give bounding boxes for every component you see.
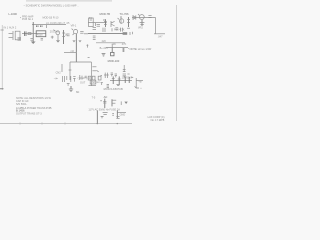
svg-text:T-5: T-5: [92, 97, 96, 100]
wire tick J: [136, 80, 143, 82]
resistor R14: [111, 48, 114, 56]
svg-text:MOD-5 A/B PCB: MOD-5 A/B PCB: [104, 87, 123, 91]
svg-text:+B: +B: [138, 80, 141, 83]
svg-text:L-1000: L-1000: [9, 12, 18, 16]
wire segment: [84, 33, 88, 35]
capacitor C12: [115, 74, 117, 77]
resistor R2: [36, 25, 38, 27]
svg-text:AUX 2: AUX 2: [9, 26, 17, 29]
wire tick under T1: [88, 84, 96, 86]
svg-text:VR-1: VR-1: [71, 25, 77, 28]
svg-text:No. 17 1975: No. 17 1975: [151, 119, 165, 122]
node mark m1: [132, 32, 134, 34]
svg-text:PCB No.1: PCB No.1: [22, 18, 34, 21]
capacitor C5: [67, 34, 70, 36]
ground G6: [69, 86, 73, 92]
ground G3: [72, 40, 75, 42]
node left border: [1, 25, 3, 90]
svg-text:MOD-7B: MOD-7B: [100, 12, 111, 16]
resistor R23: [121, 28, 123, 32]
box module M1 top: [70, 61, 91, 63]
node marks: [67, 83, 70, 85]
node right border: [176, 5, 178, 121]
diode D1: [51, 36, 54, 39]
capacitor C15: [115, 28, 118, 30]
svg-text:~ SCHEMATIC DIAGRAM MODEL L-10: ~ SCHEMATIC DIAGRAM MODEL L-1000 AMP . .: [24, 5, 80, 8]
terminal block TB2: [92, 76, 95, 80]
ground G5: [102, 54, 106, 56]
capacitor C14: [112, 114, 114, 116]
svg-text:* NOTE: all res 1/4W: * NOTE: all res 1/4W: [128, 48, 152, 51]
resistor R3: [40, 25, 42, 27]
wire bus G: [154, 33, 165, 35]
wire V3: [155, 18, 157, 34]
capacitor C1: [18, 38, 22, 40]
wire Q1 emitter: [57, 35, 59, 40]
wire V9: [116, 110, 118, 118]
transistor Q3: [111, 21, 115, 27]
node dot: [20, 17, 21, 18]
wire faint V6: [61, 64, 63, 72]
wire page top edge: [26, 0, 112, 2]
node small: [100, 75, 102, 77]
resistor R8: [80, 32, 83, 34]
box module M1 left: [69, 62, 71, 80]
svg-text:GND: GND: [120, 114, 126, 117]
node tick: [129, 32, 131, 35]
junction blob: [123, 32, 128, 35]
transistor Q2: [72, 29, 78, 35]
svg-text:4558: 4558: [37, 33, 43, 36]
diode D2: [133, 15, 136, 19]
node border tick: [0, 88, 4, 90]
terminal block TB3: [98, 76, 101, 80]
wire V2: [120, 16, 122, 24]
transistor Q4: [118, 18, 124, 23]
resistor R17: [63, 76, 65, 82]
wire V7: [135, 78, 137, 88]
svg-text:mF: mF: [71, 50, 75, 53]
plug P1: [103, 113, 108, 115]
wire bus C: [88, 22, 106, 24]
wire bus D: [88, 33, 126, 35]
junction dot j2: [117, 123, 118, 124]
input jack J1: [9, 31, 21, 40]
wire bus F top right: [132, 17, 156, 19]
node tick2: [127, 27, 130, 29]
junction dot c1: [105, 22, 106, 23]
node tick r1: [92, 66, 96, 68]
component X1: [104, 73, 109, 78]
capacitor C6: [97, 24, 100, 26]
box module M1 right: [90, 62, 92, 86]
capacitor C7: [93, 28, 96, 30]
svg-text:SP out: SP out: [92, 81, 100, 84]
node dot2: [141, 88, 142, 89]
svg-text:AC: AC: [104, 95, 108, 99]
node mark x2: [101, 83, 103, 85]
transistor Q1: [54, 30, 60, 35]
wire bus C drop: [95, 23, 97, 26]
diode D3: [131, 76, 133, 78]
svg-text:MOD-100: MOD-100: [108, 59, 120, 63]
wire trunk V4: [75, 44, 77, 62]
resistor R16: [123, 65, 126, 72]
node tick q: [111, 28, 113, 31]
node border tick2: [1, 29, 4, 31]
wire bus E: [96, 42, 125, 44]
node faint: [88, 57, 90, 59]
svg-text:OUT: OUT: [80, 81, 86, 84]
capacitor C2: [24, 31, 26, 36]
resistor R15: [122, 48, 125, 52]
wire bottom rail: [0, 123, 132, 125]
resistor R22: [128, 77, 130, 83]
switch S2: [112, 99, 116, 106]
wire Q2 down: [75, 34, 77, 44]
svg-text:100/50V: 100/50V: [122, 77, 132, 80]
wire bus A: [32, 24, 66, 26]
node tick3: [127, 73, 129, 75]
wire rail tick1: [19, 122, 21, 124]
svg-text:2SC945: 2SC945: [50, 30, 60, 33]
component cluster Q6: [71, 76, 76, 82]
fuse F1: [107, 84, 109, 87]
wire tick K: [117, 111, 126, 113]
svg-text:MOD-1B R-10: MOD-1B R-10: [43, 17, 59, 20]
wire bus I: [110, 80, 132, 82]
svg-text:c4 .01 R6 22K c7 .05: c4 .01 R6 22K c7 .05: [46, 22, 70, 25]
resistor R21: [124, 76, 126, 83]
svg-text:117V AC 50/60 Hz FUSE 2A: 117V AC 50/60 Hz FUSE 2A: [88, 108, 120, 111]
transformer T1: [90, 80, 96, 84]
diode D4: [124, 102, 127, 104]
resistor R9: [104, 20, 107, 28]
capacitor C10: [123, 74, 126, 77]
junction dot c2: [120, 17, 121, 18]
resistor R4: [28, 33, 31, 35]
wire bus A drop: [45, 25, 47, 28]
wire bus B: [22, 33, 46, 35]
wire bus H: [106, 47, 128, 49]
terminal block TB1: [88, 76, 91, 80]
svg-text:.047: .047: [158, 35, 163, 38]
svg-text:OUTPUT TRANS OT-3: OUTPUT TRANS OT-3: [16, 113, 42, 116]
ground G4: [78, 40, 81, 42]
svg-text:S/N 5001-: S/N 5001-: [16, 103, 27, 106]
wire rail tick3: [64, 122, 66, 124]
capacitor C16: [85, 76, 87, 78]
ground G7: [116, 84, 120, 85]
junction dot j1: [97, 123, 98, 124]
wire rail tick2: [41, 122, 43, 124]
component lamp L1: [116, 117, 119, 119]
wire vertical V1: [32, 22, 34, 42]
node small2: [97, 70, 99, 71]
svg-text:CN2: CN2: [56, 71, 62, 74]
switch S1: [89, 18, 94, 27]
resistor R11: [103, 28, 105, 32]
resistor R5: [41, 38, 43, 40]
resistor R13: [148, 16, 151, 18]
capacitor C13: [103, 99, 106, 108]
resistor R7: [62, 30, 65, 44]
svg-text:( 6CA7 | x2 ): ( 6CA7 | x2 ): [78, 77, 92, 80]
wire V8: [96, 111, 98, 124]
node tick ps2: [120, 101, 122, 105]
svg-text:VR2: VR2: [138, 27, 143, 30]
svg-text:TC-706: TC-706: [120, 12, 129, 16]
relay box K1: [36, 31, 46, 37]
capacitor C8: [93, 36, 96, 38]
resistor R10: [127, 17, 130, 27]
transistor Q5: [138, 14, 144, 19]
resistor R20: [118, 76, 121, 84]
svg-text:47K: 47K: [122, 43, 127, 46]
resistor R24: [80, 75, 82, 80]
capacitor C3: [30, 38, 33, 40]
ground G1: [31, 42, 36, 45]
svg-text:R12 4.7K: R12 4.7K: [114, 28, 125, 31]
node corner: [135, 86, 139, 88]
capacitor C11: [111, 73, 113, 76]
wire V5: [111, 44, 113, 48]
ground G2: [56, 40, 60, 42]
wire feeder: [64, 52, 76, 54]
node bar M1: [69, 69, 72, 71]
svg-text:IN 1: IN 1: [4, 26, 9, 29]
node mark p2: [101, 116, 104, 118]
node tick r2: [92, 70, 96, 72]
resistor R19: [112, 76, 115, 84]
svg-text:8Ω: 8Ω: [76, 91, 79, 94]
capacitor C9: [93, 38, 96, 40]
node mark ps: [100, 100, 102, 102]
node mark: [86, 44, 88, 47]
pot VR2: [140, 20, 145, 26]
resistor R18: [66, 76, 68, 80]
